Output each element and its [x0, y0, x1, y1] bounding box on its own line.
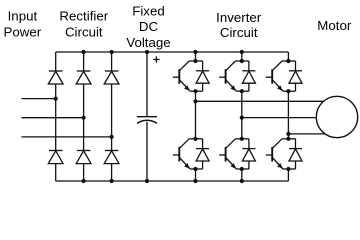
diode D10 — [242, 139, 255, 169]
wire motor phase 1 output — [196, 100, 331, 102]
wire Q1 emitter node — [190, 90, 203, 92]
junction top bus / rectifier leg 2 — [82, 50, 86, 54]
label Rectifier Circuit — [59, 8, 108, 39]
label + polarity — [153, 56, 159, 62]
wire Q6 emitter to bottom bus — [287, 169, 289, 181]
diode D7 — [196, 61, 209, 91]
wire capacitor bottom lead — [146, 122, 148, 181]
junction Q4 emitter — [240, 167, 244, 171]
wire Q4 emitter to bottom bus — [241, 169, 243, 181]
junction Q6 emitter — [286, 167, 290, 171]
motor M1 — [316, 96, 357, 137]
wire top bus to Q3 collector — [241, 52, 243, 61]
wire Q5 collector node — [282, 60, 296, 62]
junction Q1 collector — [193, 59, 197, 63]
junction rectifier leg 3 AC node — [110, 135, 114, 139]
wire Q3 collector node — [235, 60, 249, 62]
junction inverter leg 3 phase tap — [286, 132, 290, 136]
svg-text:Circuit: Circuit — [65, 25, 103, 40]
wire AC input phase 1 — [22, 98, 56, 100]
junction Q6 collector — [286, 137, 290, 141]
transistor Q5 — [266, 61, 283, 91]
wire negative DC bus (bottom) — [56, 180, 289, 182]
label Input Power — [4, 8, 42, 39]
junction bottom bus / rectifier leg 3 — [110, 179, 114, 183]
wire top bus to Q1 collector — [195, 52, 197, 61]
svg-text:Circuit: Circuit — [220, 25, 258, 40]
junction top bus / inverter leg 2 — [240, 50, 244, 54]
junction bottom bus / inverter leg 1 — [193, 179, 197, 183]
wire rectifier leg 1 vertical — [55, 52, 57, 181]
svg-text:Power: Power — [4, 25, 42, 40]
junction bottom bus / inverter leg 2 — [240, 179, 244, 183]
junction Q3 emitter — [240, 89, 244, 93]
wire Q3 emitter node — [236, 90, 249, 92]
svg-text:Inverter: Inverter — [216, 10, 262, 25]
wire Q2 collector node — [189, 138, 203, 140]
wire Q5 emitter node — [283, 90, 296, 92]
diode D12 — [289, 139, 302, 169]
diode D9 — [242, 61, 255, 91]
diode D3 — [104, 71, 119, 84]
wire capacitor top lead — [146, 52, 148, 117]
junction inverter leg 1 phase tap — [193, 99, 197, 103]
wire Q4 collector node — [235, 138, 249, 140]
wire Q6 emitter node — [283, 168, 296, 170]
wire Q1 collector node — [189, 60, 203, 62]
transistor Q6 — [266, 139, 283, 169]
wire Q2 emitter node — [190, 168, 203, 170]
junction Q5 collector — [286, 59, 290, 63]
wire AC input phase 3 — [22, 136, 112, 138]
junction rectifier leg 2 AC node — [82, 116, 86, 120]
wire rectifier leg 2 vertical — [83, 52, 85, 181]
diode D6 — [104, 151, 119, 164]
transistor Q3 — [219, 61, 236, 91]
transistor Q2 — [173, 139, 190, 169]
svg-text:Motor: Motor — [317, 18, 352, 33]
wire inverter leg 3 phase vertical — [287, 91, 289, 139]
wire Q4 emitter node — [236, 168, 249, 170]
junction bottom bus / rectifier leg 2 — [82, 179, 86, 183]
junction Q1 emitter — [193, 89, 197, 93]
wire rectifier leg 3 vertical — [111, 52, 113, 181]
diode D1 — [48, 71, 63, 84]
wire inverter leg 1 phase vertical — [195, 91, 197, 139]
svg-text:Voltage: Voltage — [126, 35, 170, 50]
svg-text:Fixed: Fixed — [132, 4, 165, 19]
label Fixed DC Voltage — [126, 4, 170, 50]
transistor Q4 — [219, 139, 236, 169]
svg-text:DC: DC — [139, 19, 159, 34]
junction top bus / rectifier leg 3 — [110, 50, 114, 54]
junction rectifier leg 1 AC node — [54, 97, 58, 101]
junction Q2 collector — [193, 137, 197, 141]
wire motor phase 3 output — [288, 133, 330, 135]
junction top bus / inverter leg 1 — [193, 50, 197, 54]
junction inverter leg 2 phase tap — [240, 116, 244, 120]
diode D11 — [289, 61, 302, 91]
junction Q4 collector — [240, 137, 244, 141]
wire motor phase 2 output — [242, 117, 330, 119]
transistor Q1 — [173, 61, 190, 91]
junction Q3 collector — [240, 59, 244, 63]
wire positive DC bus (top) — [56, 51, 289, 53]
svg-text:Rectifier: Rectifier — [59, 8, 108, 23]
diode D8 — [196, 139, 209, 169]
svg-text:Input: Input — [8, 8, 38, 23]
label Motor — [317, 18, 352, 33]
wire Q2 emitter to bottom bus — [195, 169, 197, 181]
label Inverter Circuit — [216, 10, 262, 40]
wire inverter leg 2 phase vertical — [241, 91, 243, 139]
junction bottom bus / capacitor — [145, 179, 149, 183]
junction Q2 emitter — [193, 167, 197, 171]
wire top bus to Q5 collector — [287, 52, 289, 61]
diode D2 — [76, 71, 91, 84]
diode D4 — [48, 151, 63, 164]
wire Q6 collector node — [282, 138, 296, 140]
capacitor C1 — [137, 117, 157, 124]
junction Q5 emitter — [286, 89, 290, 93]
diode D5 — [76, 151, 91, 164]
wire AC input phase 2 — [22, 117, 84, 119]
junction top bus / capacitor — [145, 50, 149, 54]
